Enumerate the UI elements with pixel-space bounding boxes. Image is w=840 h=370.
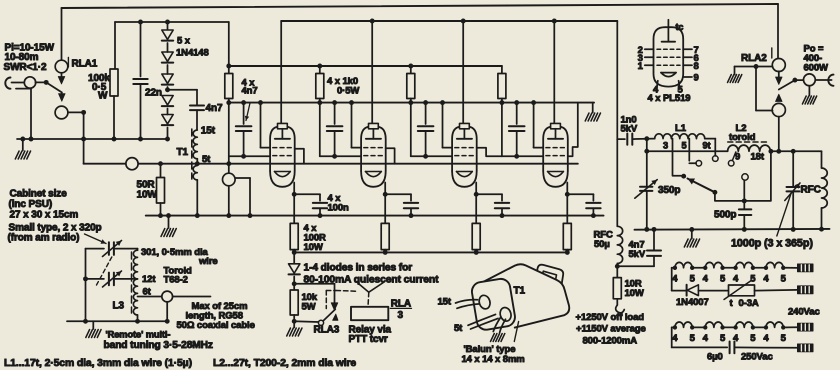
wiper to 500p line bbox=[715, 151, 771, 203]
1000p leader bbox=[777, 192, 792, 236]
svg-text:6µ0: 6µ0 bbox=[707, 352, 723, 363]
thermistor label bbox=[730, 298, 759, 309]
svg-text:4: 4 bbox=[672, 273, 678, 284]
pin numbers left bbox=[638, 45, 644, 72]
thermistor 0-3A bbox=[724, 281, 797, 300]
svg-text:4n7: 4n7 bbox=[242, 86, 258, 97]
L2 tap circle bbox=[728, 152, 735, 166]
svg-text:5kV: 5kV bbox=[621, 124, 638, 135]
svg-text:22n: 22n bbox=[145, 88, 162, 99]
pinout tube outline bbox=[654, 27, 684, 86]
anode feed #4 bbox=[552, 19, 557, 124]
svg-text:(from am radio): (from am radio) bbox=[8, 233, 80, 244]
capacitor 1n0 5kV bbox=[617, 134, 647, 145]
10R label bbox=[625, 279, 644, 300]
svg-text:W: W bbox=[98, 91, 108, 102]
1000p arrow bbox=[785, 183, 800, 201]
svg-text:3: 3 bbox=[398, 310, 404, 321]
relay RLA1 bottom contact bbox=[55, 106, 68, 119]
4x1k0 label bbox=[327, 76, 359, 97]
capacitor 4n7 (T1 top) bbox=[190, 106, 204, 131]
tube V2 envelope bbox=[361, 123, 386, 186]
choke RFC 50u bbox=[615, 139, 623, 269]
svg-text:4 x PL519: 4 x PL519 bbox=[648, 93, 691, 104]
svg-text:14 x 14 x 8mm: 14 x 14 x 8mm bbox=[462, 354, 525, 365]
RLA2 wiper blade bbox=[779, 78, 798, 90]
L3 6t tap out bbox=[138, 296, 162, 298]
grid return col4 bbox=[568, 103, 578, 157]
diodes note line2 bbox=[304, 275, 440, 286]
diodes note line1 bbox=[304, 263, 413, 274]
wire RLA1 bottom to node bbox=[68, 110, 86, 115]
wire contact to switch pole bbox=[35, 80, 48, 85]
choke RFC (tank) bbox=[819, 151, 827, 231]
cabinet note bbox=[9, 189, 79, 221]
coax connector circle bbox=[162, 291, 173, 302]
svg-text:5: 5 bbox=[781, 333, 787, 344]
capacitor 500p bbox=[739, 209, 751, 231]
wire 10k bottom to blade bbox=[294, 320, 318, 323]
T1 15t winding bbox=[193, 130, 197, 159]
tube3 right exit to g2 line bbox=[477, 148, 502, 157]
diode 1N4007 bbox=[687, 285, 729, 296]
RLA2 label bbox=[741, 53, 767, 64]
svg-text:T68-2: T68-2 bbox=[164, 275, 188, 286]
resistor 10R bbox=[613, 266, 621, 305]
ground (balun) bbox=[491, 334, 505, 342]
RLA3 contact arrow bbox=[331, 303, 338, 311]
svg-text:4: 4 bbox=[703, 273, 709, 284]
wire circle side to rail H bbox=[235, 178, 252, 218]
svg-text:4: 4 bbox=[763, 333, 769, 344]
output coax connector J2 bbox=[828, 75, 833, 86]
pin numbers right bbox=[694, 45, 699, 84]
svg-text:4: 4 bbox=[733, 273, 739, 284]
svg-text:5: 5 bbox=[750, 273, 756, 284]
RLA1 wiper blade bbox=[46, 82, 62, 92]
tube V4 envelope bbox=[543, 123, 568, 186]
footer L1 spec bbox=[4, 358, 192, 369]
balun note bbox=[462, 344, 525, 365]
svg-text:5W: 5W bbox=[302, 302, 316, 313]
resistor 1k0 #2 bbox=[316, 64, 324, 99]
L3 winding labels bbox=[142, 274, 156, 298]
svg-text:10W: 10W bbox=[304, 242, 323, 253]
row2 left leg bbox=[672, 327, 728, 347]
svg-text:9t: 9t bbox=[703, 141, 711, 151]
svg-text:band tuning 3·5-28MHz: band tuning 3·5-28MHz bbox=[104, 340, 213, 351]
RLA2 armature tick bbox=[771, 48, 773, 58]
capacitor 350p bbox=[640, 187, 652, 232]
bus A (antenna bypass) bbox=[62, 4, 779, 8]
wire RLA2 lower branch bbox=[756, 67, 773, 111]
tube V3 envelope bbox=[452, 123, 477, 186]
L3 winding bottom bbox=[135, 315, 140, 324]
coil L1 bbox=[647, 134, 716, 139]
250Vac label bbox=[741, 352, 773, 363]
svg-text:L2...27t, T200-2, 2mm dia wir: L2...27t, T200-2, 2mm dia wire bbox=[213, 358, 356, 369]
RLA2 arrow up bbox=[776, 94, 783, 101]
svg-text:1000p (3 x 365p): 1000p (3 x 365p) bbox=[731, 238, 813, 250]
footer L2 spec bbox=[213, 358, 356, 369]
350p arrow bbox=[635, 180, 657, 199]
svg-text:12t: 12t bbox=[142, 274, 156, 285]
L2 tap labels bbox=[735, 152, 765, 163]
pinout pins left bbox=[645, 49, 654, 65]
svg-text:L1: L1 bbox=[675, 123, 687, 134]
capacitor 100n #2 bbox=[385, 194, 418, 218]
svg-text:50Ω coaxial cable: 50Ω coaxial cable bbox=[177, 320, 255, 331]
svg-text:Cabinet size: Cabinet size bbox=[10, 189, 68, 200]
L1 tap 5t bbox=[689, 139, 701, 167]
input labels Pi/SWR bbox=[4, 43, 55, 74]
HT supply note bbox=[576, 312, 646, 347]
4 x PL519 label bbox=[648, 93, 691, 104]
svg-text:5: 5 bbox=[690, 333, 696, 344]
L1 node bbox=[644, 136, 649, 185]
svg-text:15t: 15t bbox=[438, 297, 452, 308]
input coax shield stub bbox=[16, 89, 31, 139]
10k label bbox=[302, 292, 318, 313]
1N4007 label bbox=[676, 297, 709, 308]
5t label bbox=[202, 154, 211, 165]
pinout grid dashes bbox=[657, 49, 680, 65]
svg-text:T1: T1 bbox=[177, 147, 189, 158]
anode feed #1 bbox=[280, 21, 282, 124]
RLA3 label bbox=[314, 325, 340, 336]
relay RLA2 top contact bbox=[772, 59, 785, 72]
svg-text:PTT tcvr: PTT tcvr bbox=[349, 334, 388, 345]
balun T1 body bbox=[471, 264, 570, 331]
grid2 rail seg #3 bbox=[411, 155, 452, 157]
wire note bbox=[141, 247, 218, 267]
svg-text:10W: 10W bbox=[137, 190, 158, 201]
4n7 5kV label bbox=[629, 240, 646, 261]
output node wires bbox=[768, 149, 821, 154]
pinout pins right bbox=[683, 49, 692, 77]
svg-text:800-1200mA: 800-1200mA bbox=[583, 336, 638, 347]
small type note bbox=[8, 223, 102, 244]
relay contact circle (T1 drive) bbox=[126, 158, 138, 170]
1000p label bbox=[731, 238, 813, 250]
tube V3 internals bbox=[455, 129, 474, 177]
capacitor 100n #1 bbox=[294, 194, 327, 218]
svg-text:+1150V average: +1150V average bbox=[576, 324, 646, 335]
ground (10k) bbox=[287, 321, 302, 336]
tube V2 internals bbox=[364, 129, 383, 177]
svg-text:50µ: 50µ bbox=[594, 239, 610, 250]
svg-text:1: 1 bbox=[638, 61, 644, 72]
small type leader bbox=[85, 234, 107, 244]
RLA1 label bbox=[72, 59, 98, 70]
15t lead label bbox=[438, 297, 452, 308]
svg-text:240Vac: 240Vac bbox=[788, 307, 820, 318]
anode bus corner down bbox=[616, 21, 618, 139]
cathode stub #1 bbox=[292, 183, 297, 197]
350p label bbox=[658, 185, 680, 196]
capacitor 4n7 #4 bbox=[509, 100, 525, 159]
RFC tank label bbox=[801, 185, 821, 196]
svg-text:L1...17t, 2·5cm dia, 3mm dia: L1...17t, 2·5cm dia, 3mm dia wire (1·5µ) bbox=[4, 358, 192, 369]
row1 right to connector bbox=[787, 267, 797, 269]
L2 core dashes bbox=[728, 141, 767, 143]
relay contact circle col1 bbox=[223, 161, 236, 218]
PTT aerial symbol bbox=[358, 283, 383, 307]
L3 core dashes bbox=[131, 252, 133, 313]
svg-text:18t: 18t bbox=[751, 152, 765, 163]
balun 15t lead bbox=[456, 300, 480, 309]
rail H (ground rail) bbox=[146, 215, 604, 217]
svg-text:350p: 350p bbox=[658, 185, 680, 196]
1N4148 label bbox=[176, 36, 209, 59]
L3 bottom bus bbox=[67, 320, 168, 322]
balun ground leads bbox=[493, 318, 505, 333]
T1 core dashes bbox=[191, 129, 193, 179]
tube V1 envelope bbox=[270, 123, 295, 186]
rail G (grid3/drive) bbox=[84, 163, 578, 165]
svg-text:L3: L3 bbox=[113, 301, 125, 312]
capacitor 100n #4 bbox=[567, 194, 600, 218]
tube1 right exit to rail G bbox=[295, 149, 304, 164]
svg-text:1-4 diodes in series for: 1-4 diodes in series for bbox=[304, 263, 413, 274]
mains connector 3 bbox=[798, 323, 814, 331]
svg-text:5: 5 bbox=[750, 333, 756, 344]
svg-text:tc: tc bbox=[676, 22, 684, 32]
bus A corner to RLA2 bbox=[777, 4, 779, 58]
balun leader line bbox=[514, 322, 518, 342]
wire bias tap to 4n7 bbox=[168, 90, 198, 105]
variable cap 320p b bbox=[86, 271, 138, 287]
svg-text:15t: 15t bbox=[201, 126, 216, 137]
tube V4 internals bbox=[546, 129, 565, 177]
anode feed #3 bbox=[461, 19, 466, 124]
input coax connector J1 bbox=[5, 78, 10, 89]
T1 5t bottom to rail H bbox=[195, 180, 200, 218]
coil L2 bbox=[728, 145, 771, 151]
500p label bbox=[714, 210, 736, 221]
ground (rail H) bbox=[161, 213, 176, 236]
4n7 label (T1) bbox=[206, 103, 223, 114]
resistor 1k0 #3 bbox=[407, 64, 415, 99]
grid2 rail seg #1 bbox=[230, 155, 271, 157]
ground (RLA2) bbox=[728, 75, 742, 83]
pinout cathode cup bbox=[661, 73, 676, 77]
coil L3 bbox=[133, 249, 137, 315]
RLA/3 designation bbox=[390, 299, 411, 321]
capacitor 4n7 5kV bbox=[617, 227, 661, 266]
bus B (bias) corner to 100k bbox=[115, 22, 229, 69]
svg-text:toroid: toroid bbox=[729, 132, 756, 143]
balun tab loop bbox=[534, 265, 563, 288]
pin numbers bottom bbox=[653, 85, 684, 96]
cathode stub #2 bbox=[383, 183, 388, 197]
svg-text:5t: 5t bbox=[454, 323, 463, 334]
tube2 right exit to rail G bbox=[386, 148, 395, 164]
resistor 100R #4 bbox=[563, 194, 571, 255]
resistor 100R #1 bbox=[290, 194, 298, 255]
svg-text:10W: 10W bbox=[625, 288, 644, 299]
toroid note bbox=[164, 266, 193, 286]
svg-text:5: 5 bbox=[720, 333, 726, 344]
svg-text:27 x 30 x 15cm: 27 x 30 x 15cm bbox=[10, 210, 79, 221]
L1 right end to contact bbox=[713, 139, 719, 162]
svg-text:4: 4 bbox=[703, 333, 709, 344]
balun 5t lead bbox=[468, 314, 498, 329]
1k0 #2 bottom lead bbox=[317, 99, 322, 157]
svg-text:5: 5 bbox=[781, 273, 787, 284]
Po coax shield to ground bbox=[802, 86, 816, 104]
heater chain row1 bbox=[672, 262, 787, 284]
grid1 stub #3 bbox=[440, 100, 452, 147]
resistor 100R #3 bbox=[472, 194, 480, 255]
svg-text:600W: 600W bbox=[804, 63, 829, 74]
T1 5t winding bbox=[193, 166, 197, 180]
bus B corner down col1 bbox=[228, 22, 230, 74]
6u0 label bbox=[707, 352, 723, 363]
svg-text:(inc PSU): (inc PSU) bbox=[9, 199, 53, 210]
svg-text:+1250V off load: +1250V off load bbox=[576, 312, 645, 323]
svg-text:RFC: RFC bbox=[801, 185, 821, 196]
HT lead hook bbox=[616, 305, 625, 313]
cathode rail bbox=[294, 251, 567, 253]
remote note bbox=[104, 330, 213, 352]
240Vac label bbox=[788, 307, 820, 318]
1k0 #3 bottom lead bbox=[408, 99, 413, 157]
capacitor 1000p bbox=[787, 151, 800, 232]
1k0 #4 bottom lead bbox=[499, 99, 504, 157]
tank ground bus bbox=[635, 228, 830, 231]
svg-text:1N4007: 1N4007 bbox=[676, 297, 709, 308]
svg-text:'Remote' multi-: 'Remote' multi- bbox=[106, 330, 171, 340]
svg-text:1N4148: 1N4148 bbox=[176, 48, 209, 59]
pinout top cap bbox=[662, 20, 684, 42]
4x100n label bbox=[328, 193, 350, 214]
svg-text:SWR<1·2: SWR<1·2 bbox=[4, 62, 47, 73]
RFC 50u label bbox=[594, 230, 613, 251]
Po label bbox=[804, 44, 829, 74]
diode chain 5x 1N4148 bbox=[162, 20, 173, 142]
capacitor 4n7 #2 bbox=[327, 100, 343, 159]
svg-text:8: 8 bbox=[694, 61, 699, 72]
relay contact circle (input side) bbox=[24, 77, 35, 88]
variable cap 320p a bbox=[103, 241, 138, 257]
L1 tap labels bbox=[663, 141, 711, 151]
RLA3 blade bbox=[318, 309, 338, 325]
svg-text:5kV: 5kV bbox=[629, 249, 646, 260]
heater chain row2 bbox=[672, 322, 787, 344]
svg-text:5: 5 bbox=[682, 141, 687, 151]
bus A vertical from RLA1 bbox=[61, 8, 63, 60]
relay note bbox=[349, 325, 392, 346]
L2 label bbox=[729, 123, 756, 143]
RLA3 dashed box bbox=[326, 291, 358, 309]
T1 label bbox=[177, 147, 189, 158]
grid rail bbox=[229, 102, 594, 104]
5t lead label bbox=[454, 323, 463, 334]
row1 left leg bbox=[672, 268, 686, 291]
resistor 1k0 #1 bbox=[225, 74, 233, 99]
ground bus y139 bbox=[17, 137, 168, 142]
svg-text:T1: T1 bbox=[514, 286, 526, 297]
mains connector 2 bbox=[798, 286, 814, 294]
bias diode bbox=[289, 252, 300, 286]
row2 right to connector bbox=[787, 326, 797, 328]
resistor 100k bbox=[110, 69, 118, 141]
relay contact circle (output) bbox=[804, 74, 816, 86]
15t label bbox=[201, 126, 216, 137]
resistor 100R #2 bbox=[381, 194, 389, 255]
wire RLA3 top bbox=[294, 284, 334, 303]
RLA1 arrow down (bottom) bbox=[59, 92, 66, 101]
1n0 label bbox=[621, 115, 638, 135]
svg-text:9: 9 bbox=[694, 73, 699, 84]
svg-text:5: 5 bbox=[720, 273, 726, 284]
coax shield stub bbox=[165, 302, 170, 324]
capacitor 4n7 #1 bbox=[236, 100, 252, 159]
svg-text:100n: 100n bbox=[328, 203, 350, 214]
wire node down to rail G bbox=[81, 112, 86, 163]
screen rail y66 bbox=[226, 64, 502, 69]
4x100R label bbox=[304, 223, 327, 253]
bandswitch wiper 1 bbox=[673, 151, 718, 195]
switch common line bbox=[647, 150, 728, 152]
grid2 rail seg #4 bbox=[502, 155, 543, 157]
svg-text:0-3A: 0-3A bbox=[739, 298, 759, 309]
cathode stub #4 bbox=[565, 183, 570, 197]
grid2 rail seg #2 bbox=[320, 155, 361, 157]
relay RLA2 bottom contact bbox=[772, 103, 785, 151]
RLA2 arrow down bbox=[776, 71, 783, 84]
capacitor 22n bbox=[133, 20, 147, 142]
coax out wire bbox=[173, 296, 211, 298]
RLA1 arrow down (top) bbox=[58, 73, 65, 84]
svg-text:RLA3: RLA3 bbox=[314, 325, 340, 336]
ground (input) bbox=[15, 139, 30, 159]
T1 winding tap to rail G bbox=[195, 159, 200, 166]
capacitor 100n #3 bbox=[476, 194, 509, 218]
svg-text:4: 4 bbox=[672, 333, 678, 344]
mains connector 4 bbox=[798, 344, 814, 352]
1k0 #1 bottom lead bbox=[226, 99, 231, 164]
svg-text:RLA2: RLA2 bbox=[741, 53, 767, 64]
resistor 1k0 #4 bbox=[498, 66, 506, 99]
grid1 stub #4 bbox=[531, 100, 543, 147]
resistor 50R bbox=[157, 161, 165, 218]
svg-text:4n7: 4n7 bbox=[206, 103, 223, 114]
ground (L3) bbox=[86, 321, 101, 337]
balun T1 label bbox=[514, 286, 526, 297]
wire to Po circle bbox=[795, 79, 804, 81]
capacitor 6u0 bbox=[730, 342, 797, 354]
L1 label bbox=[675, 123, 687, 134]
ground (grid rail) bbox=[585, 103, 600, 121]
svg-text:250Vac: 250Vac bbox=[741, 352, 773, 363]
coax note bbox=[177, 301, 255, 331]
RLA1 armature tick bbox=[67, 58, 69, 68]
relay RLA1 top contact bbox=[55, 60, 68, 73]
wire input to contact bbox=[12, 82, 25, 84]
50R label bbox=[137, 180, 158, 201]
relay coil box bbox=[351, 307, 388, 320]
resistor 10k bbox=[290, 284, 298, 324]
ground (tank) bbox=[684, 227, 699, 247]
gang link dashes bbox=[97, 257, 112, 285]
capacitor 4n7 #3 bbox=[418, 100, 434, 159]
22n label bbox=[145, 88, 162, 99]
capacitor 500p contact bbox=[742, 174, 748, 208]
grid1 stub #1 bbox=[258, 100, 270, 147]
svg-text:5 x: 5 x bbox=[177, 36, 191, 47]
